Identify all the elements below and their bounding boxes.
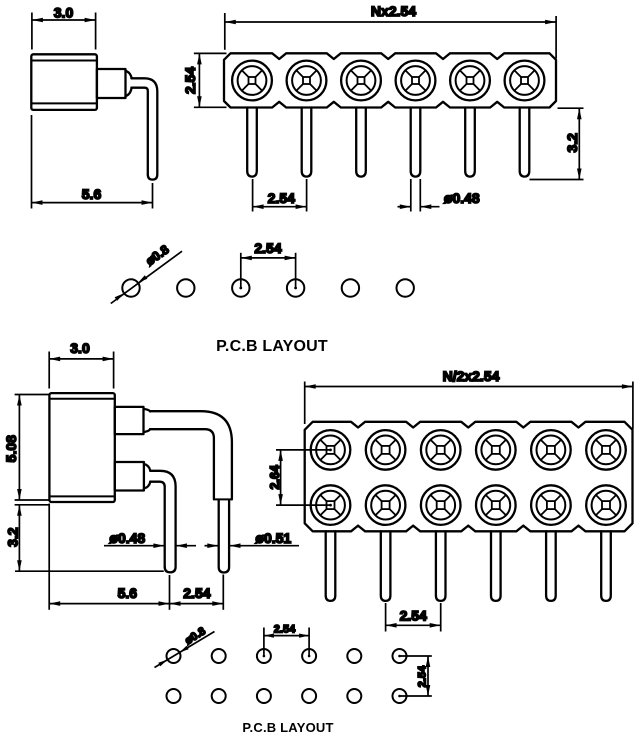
pin 2 (dual-row front view) <box>381 531 391 601</box>
socket contact 6 (single-row front view) <box>505 61 545 101</box>
socket contact row1-6 (dual-row front view) <box>586 430 626 470</box>
svg-text:P.C.B LAYOUT: P.C.B LAYOUT <box>242 720 333 735</box>
dimension 2.54 (hole pitch, dual-row layout) <box>264 624 309 656</box>
svg-text:2.54: 2.54 <box>274 624 296 636</box>
connector body (single-row side view) <box>31 54 97 110</box>
dimension 5.6 (body to pin, single-row side view) <box>32 115 153 209</box>
dimension 3.0 (body width, dual-row side view) <box>49 340 113 388</box>
socket contact 4 (single-row front view) <box>396 61 436 101</box>
socket contact row2-4 (dual-row front view) <box>476 485 516 525</box>
dimension 5.6 (body to lower pin, dual-row side view) <box>49 504 169 610</box>
PCB hole 5 (single-row layout) <box>342 279 359 296</box>
dimension Nx2.54 (overall length, single-row front view) <box>225 3 556 58</box>
pin 3 (dual-row front view) <box>436 531 446 601</box>
svg-text:2.54: 2.54 <box>416 665 428 687</box>
dimension 2.54 (pin pitch, single-row front view) <box>253 179 307 212</box>
svg-text:ø0.51: ø0.51 <box>255 530 291 546</box>
svg-text:5.08: 5.08 <box>3 435 19 462</box>
pin 1 (single-row front view) <box>247 108 257 177</box>
dimension 2.54 (pin pitch, dual-row front view) <box>386 603 441 632</box>
dimension 2.54 (body height, single-row front view) <box>182 53 227 107</box>
dimension 2.54 (pin to pin, dual-row side view) <box>170 575 224 610</box>
PCB hole row2-3 (dual-row layout) <box>257 689 271 703</box>
PCB hole row2-4 (dual-row layout) <box>302 689 316 703</box>
pin 5 (dual-row front view) <box>546 531 556 601</box>
PCB hole row2-1 (dual-row layout) <box>167 689 181 703</box>
socket contact 3 (single-row front view) <box>341 61 381 101</box>
socket contact row2-1 (dual-row front view) <box>311 485 351 525</box>
pin 5 (single-row front view) <box>465 108 475 177</box>
upper bent pin (dual-row side view) <box>150 411 232 572</box>
PCB hole row1-5 (dual-row layout) <box>347 649 361 663</box>
svg-text:Nx2.54: Nx2.54 <box>371 3 416 19</box>
PCB hole 6 (single-row layout) <box>397 279 414 296</box>
hole center dots (single-row layout) <box>239 287 242 290</box>
socket contact 5 (single-row front view) <box>450 61 490 101</box>
PCB hole row2-5 (dual-row layout) <box>347 689 361 703</box>
svg-text:2.54: 2.54 <box>254 240 281 256</box>
svg-text:2.54: 2.54 <box>182 67 198 94</box>
svg-text:ø0.48: ø0.48 <box>444 190 480 206</box>
contact barrel (single-row side view) <box>97 69 132 98</box>
dimension 2.64 (row spacing, dual-row front view) <box>268 450 331 505</box>
lower contact barrel (dual-row side view) <box>115 462 151 491</box>
socket contact 2 (single-row front view) <box>287 61 327 101</box>
svg-text:P.C.B LAYOUT: P.C.B LAYOUT <box>216 338 328 355</box>
dimension 3.2 (pin length, single-row front view) <box>530 108 584 179</box>
socket contact row1-3 (dual-row front view) <box>421 430 461 470</box>
svg-text:5.6: 5.6 <box>118 585 138 601</box>
svg-text:3.0: 3.0 <box>70 340 90 356</box>
socket contact row1-5 (dual-row front view) <box>531 430 571 470</box>
row center marks (dual-row front view) <box>329 449 332 452</box>
upper contact barrel (dual-row side view) <box>115 407 150 434</box>
PCB hole row1-3 (dual-row layout) <box>257 649 271 663</box>
svg-text:N/2x2.54: N/2x2.54 <box>443 368 500 384</box>
svg-text:5.6: 5.6 <box>82 186 102 202</box>
PCB hole row1-2 (dual-row layout) <box>212 649 226 663</box>
PCB hole 3 (single-row layout) <box>232 279 249 296</box>
socket contact row1-1 (dual-row front view) <box>311 430 351 470</box>
PCB hole 4 (single-row layout) <box>287 279 304 296</box>
pin 6 (dual-row front view) <box>601 531 611 601</box>
dimension 2.54 (hole pitch, single-row layout) <box>241 240 296 288</box>
dimension 3.2 (pin length, dual-row side view) <box>5 505 164 571</box>
hole center dots (dual-row layout) <box>263 655 266 658</box>
socket contact row2-6 (dual-row front view) <box>586 485 626 525</box>
socket contact row1-2 (dual-row front view) <box>366 430 406 470</box>
PCB hole 1 (single-row layout) <box>122 279 139 296</box>
dimension ø0.48 (pin diameter, single-row front view) <box>398 179 480 212</box>
svg-text:3.0: 3.0 <box>54 4 74 20</box>
pin 2 (single-row front view) <box>302 108 312 177</box>
dimension 5.08 (row span, dual-row side view) <box>3 395 49 501</box>
svg-text:2.54: 2.54 <box>400 608 427 624</box>
pin 4 (dual-row front view) <box>491 531 501 601</box>
pin 6 (single-row front view) <box>520 108 530 177</box>
svg-text:3.2: 3.2 <box>564 133 580 153</box>
svg-text:2.54: 2.54 <box>268 190 295 206</box>
leader ø0.8 (hole diameter, single-row layout) <box>111 242 182 303</box>
connector body (single-row front view) <box>224 53 556 107</box>
connector body (dual-row side view) <box>49 393 114 502</box>
pin 1 (dual-row front view) <box>326 531 336 601</box>
dimension ø0.48 (lower pin diameter, dual-row side view) <box>104 530 196 548</box>
PCB hole row2-2 (dual-row layout) <box>212 689 226 703</box>
PCB hole row1-4 (dual-row layout) <box>302 649 316 663</box>
svg-text:2.64: 2.64 <box>268 465 282 489</box>
lower bent pin (dual-row side view) <box>150 471 175 573</box>
socket contact 1 (single-row front view) <box>232 61 272 101</box>
svg-text:2.54: 2.54 <box>183 585 210 601</box>
dimension N/2x2.54 (overall length, dual-row front view) <box>305 368 633 429</box>
pin 4 (single-row front view) <box>411 108 421 177</box>
PCB hole 2 (single-row layout) <box>177 279 194 296</box>
dimension 3.0 (body width, single-row side view) <box>32 4 96 49</box>
PCB hole row2-6 (dual-row layout) <box>393 689 407 703</box>
socket contact row2-3 (dual-row front view) <box>421 485 461 525</box>
pin 3 (single-row front view) <box>356 108 366 177</box>
svg-text:ø0.48: ø0.48 <box>109 530 145 546</box>
PCB hole row1-6 (dual-row layout) <box>393 649 407 663</box>
leader ø0.8 (hole diameter, dual-row layout) <box>155 625 215 667</box>
socket contact row2-2 (dual-row front view) <box>366 485 406 525</box>
socket contact row2-5 (dual-row front view) <box>531 485 571 525</box>
bent pin (single-row side view) <box>131 78 157 179</box>
dimension 2.54 (row spacing, dual-row layout) <box>400 656 432 696</box>
connector body (dual-row front view) <box>305 422 633 532</box>
svg-text:3.2: 3.2 <box>5 527 21 547</box>
PCB hole row1-1 (dual-row layout) <box>167 649 181 663</box>
dimension ø0.51 (upper pin diameter, dual-row side view) <box>205 530 300 548</box>
socket contact row1-4 (dual-row front view) <box>476 430 516 470</box>
